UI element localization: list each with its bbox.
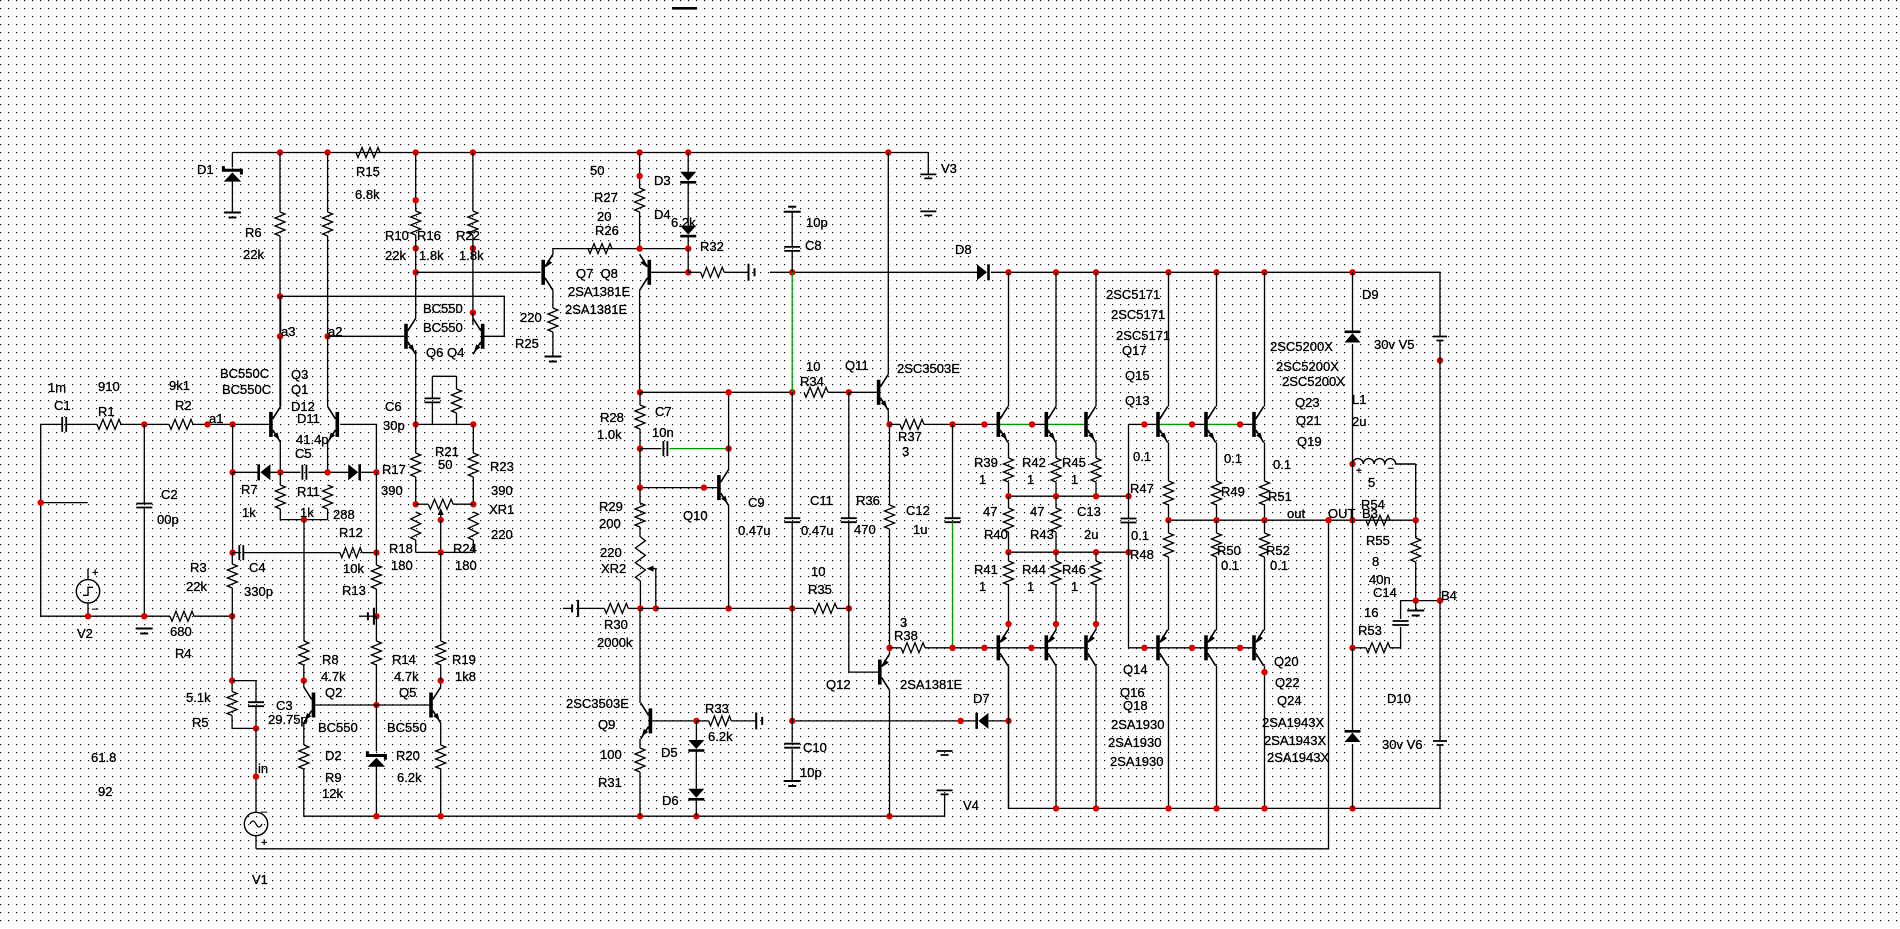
svg-text:C2: C2 (161, 487, 178, 502)
svg-text:R26: R26 (595, 223, 619, 238)
junction top rail R22 (470, 149, 476, 155)
resistor R45 1 (1091, 458, 1101, 482)
junction Q10 base seg (701, 484, 707, 490)
resistor R8 (299, 641, 309, 665)
wire Q5 collector (440, 681, 442, 687)
svg-text:XR2: XR2 (601, 561, 626, 576)
wire C12 top (952, 424, 954, 518)
wire V5 to B4 (1439, 341, 1441, 601)
junction XR1 bottom (438, 549, 444, 555)
capacitor C5 (302, 465, 306, 480)
resistor R24 (468, 512, 478, 540)
svg-text:2SA1943X: 2SA1943X (1262, 715, 1324, 730)
junction R41 emitter (1005, 621, 1011, 627)
diode D11 (348, 464, 361, 480)
wire R39 bottom (1008, 482, 1010, 496)
junction C6 right (470, 421, 476, 427)
svg-text:R6: R6 (245, 225, 262, 240)
junction top rail R27 (636, 149, 642, 155)
wire D7 row (792, 720, 977, 722)
wire NPN2 base b (1144, 423, 1156, 425)
junction railR e (1213, 805, 1219, 811)
battery V6 (1433, 741, 1447, 745)
svg-text:C7: C7 (655, 404, 672, 419)
junction R13 gnd (373, 613, 379, 619)
resistor R55 (1411, 538, 1421, 562)
wire D3 lead (687, 153, 689, 172)
wire R53 lead (1353, 647, 1367, 649)
svg-text:1: 1 (1027, 579, 1034, 594)
wire R49 bottom (1216, 505, 1218, 520)
wire D9 top lead (1352, 272, 1354, 330)
wire R7 leads (279, 472, 281, 485)
svg-text:R36: R36 (856, 493, 880, 508)
capacitor C12 (945, 518, 961, 522)
junction V5 bottom (1437, 357, 1443, 363)
wire Q23 emitter (1168, 442, 1170, 481)
wire R51 bottom (1264, 505, 1266, 520)
wire diode row 3 (308, 471, 348, 473)
wire Q22 collector (1216, 666, 1218, 809)
wire D5 top (695, 721, 697, 740)
junction C6 left (413, 421, 419, 427)
svg-text:D8: D8 (955, 242, 972, 257)
svg-text:Q22: Q22 (1275, 675, 1300, 690)
svg-text:5: 5 (1368, 475, 1375, 490)
svg-text:4.7k: 4.7k (394, 669, 419, 684)
wire Q19 collector (1264, 272, 1266, 406)
svg-text:C14: C14 (1373, 585, 1397, 600)
svg-text:R35: R35 (808, 582, 832, 597)
transistor Q11 2SC3503E (877, 374, 889, 410)
junction rail D9 (1349, 269, 1355, 275)
wire Q3 emitter down (279, 442, 281, 472)
resistor R7 (275, 485, 285, 509)
wire R3col below (231, 616, 233, 691)
capacitor C4 (239, 545, 243, 560)
wire V1 bottom (255, 836, 257, 849)
svg-text:61.8: 61.8 (91, 750, 116, 765)
wire R27 bottom (639, 212, 641, 249)
svg-text:BC550: BC550 (387, 720, 427, 735)
resistor R53 (1366, 643, 1390, 653)
svg-text:R37: R37 (898, 429, 922, 444)
junction R12 R13 (373, 549, 379, 555)
wire rail left (376, 815, 944, 817)
wire D5-D6 (695, 751, 697, 788)
diode D2 (zener) (367, 751, 385, 767)
capacitor C6 (424, 398, 440, 402)
svg-text:R52: R52 (1266, 543, 1290, 558)
junction PNP2 base c (1237, 645, 1243, 651)
wire D10 top (1352, 648, 1354, 730)
svg-text:R8: R8 (322, 652, 339, 667)
svg-text:BC550C: BC550C (220, 366, 269, 381)
wire diode row 4 (361, 471, 376, 473)
svg-text:910: 910 (98, 379, 120, 394)
wire NPN1 base wire b (1032, 423, 1045, 425)
svg-text:47: 47 (1030, 504, 1044, 519)
wire R38 right (925, 647, 984, 649)
svg-text:Q3: Q3 (291, 367, 308, 382)
wire R40 leads (1008, 496, 1010, 508)
wire top rail (232, 152, 928, 154)
wire R33 right (731, 720, 756, 722)
junction L1 left (1349, 461, 1355, 467)
svg-text:10p: 10p (800, 765, 822, 780)
svg-text:2SA1930: 2SA1930 (1108, 735, 1162, 750)
svg-text:390: 390 (491, 483, 513, 498)
junction R23 XR1 (470, 501, 476, 507)
wire Q24 collector (1264, 666, 1266, 809)
svg-text:R19: R19 (452, 652, 476, 667)
svg-text:41.4p: 41.4p (296, 432, 329, 447)
resistor R50 0.1 (1212, 533, 1222, 557)
junction C5 R11 (324, 469, 330, 475)
svg-text:C3: C3 (276, 698, 293, 713)
wire R30 lead (578, 607, 604, 609)
pot XR2 (635, 537, 645, 581)
junction NPN2 base b (1189, 421, 1195, 427)
resistor R1 (97, 419, 121, 429)
transistor Q2 BC550 (304, 687, 316, 723)
wire R19 bottom (440, 665, 442, 681)
resistor R31 (635, 748, 645, 772)
wire V4 bottom (944, 794, 946, 816)
transistor Q3 BC550C (269, 406, 281, 442)
svg-text:Q2: Q2 (325, 685, 342, 700)
wire R16 top (415, 153, 417, 212)
wire V2 plus stub (87, 569, 89, 580)
wire C13 col top (1128, 424, 1130, 496)
svg-text:C9: C9 (748, 495, 765, 510)
wire R32 end (724, 271, 748, 273)
wire XR1 right lead (453, 503, 473, 505)
wire R21 top lead (456, 376, 458, 389)
junction D7 mid (958, 718, 964, 724)
svg-text:16: 16 (1364, 605, 1378, 620)
wire R34 right (828, 391, 849, 393)
wire R37 right (924, 423, 984, 425)
ground R30 (572, 600, 578, 617)
junction R4 R3 (229, 613, 235, 619)
junction D11 R13col (373, 469, 379, 475)
svg-text:R46: R46 (1062, 562, 1086, 577)
junction C3-R5 (253, 725, 259, 731)
svg-text:D11: D11 (297, 411, 320, 426)
resistor R22 (468, 211, 478, 235)
svg-text:288: 288 (333, 507, 355, 522)
wire C13 col bottom (1128, 552, 1130, 648)
svg-text:2SA1943X: 2SA1943X (1264, 733, 1326, 748)
wire NPN1 base green a (1000, 423, 1032, 425)
wire Q14 collector (1008, 666, 1010, 809)
resistor R4 (170, 611, 194, 621)
wire R3 leads (231, 553, 233, 564)
svg-text:R13: R13 (342, 583, 366, 598)
junction D7 left (789, 718, 795, 724)
wire in column (255, 728, 257, 812)
svg-text:6.2k: 6.2k (397, 770, 422, 785)
junction PNP1 base a (981, 645, 987, 651)
resistor R36 (885, 505, 895, 529)
transistor Q18 2SA1930 (1084, 630, 1096, 666)
diode D9 (1345, 331, 1361, 343)
wire Q5 base (376, 704, 429, 706)
wire R25 bottom (552, 332, 554, 357)
junction D12 R7 (277, 469, 283, 475)
junction Q20 collector (1261, 669, 1267, 675)
wire OUT rail (1169, 519, 1416, 521)
wire D10 bottom (1352, 744, 1354, 808)
inductor L1 (1353, 459, 1416, 464)
svg-text:R38: R38 (894, 628, 918, 643)
svg-text:2SA1930: 2SA1930 (1110, 754, 1164, 769)
svg-text:2u: 2u (1352, 414, 1366, 429)
resistor R35 (813, 603, 837, 613)
wire C1-R1 (66, 423, 97, 425)
wire XR1 wiper down (440, 520, 442, 553)
junction R38 left (886, 645, 892, 651)
svg-text:0.1: 0.1 (1273, 457, 1291, 472)
wire Q2 collector (303, 681, 305, 687)
wire Q15 emitter (1055, 442, 1057, 458)
junction rail col3 (1093, 269, 1099, 275)
junction R26 Q8emitter (636, 245, 642, 251)
wire Q8 collector (639, 290, 641, 392)
wire R43 bottom (1055, 532, 1057, 552)
wire R52 bottom (1264, 557, 1266, 630)
transistor Q22 2SA1943X (1204, 630, 1216, 666)
svg-text:6.8k: 6.8k (355, 187, 380, 202)
svg-text:D3: D3 (654, 173, 671, 188)
wire PNP1 base wire (984, 647, 1084, 649)
junction R7 R11 (301, 516, 307, 522)
diode D5 (688, 740, 704, 752)
diode D3 (680, 172, 696, 184)
wire D2 bottom (375, 767, 377, 817)
battery V3 (920, 174, 936, 215)
wire Q12 emitter (889, 648, 891, 654)
junction out a (1165, 517, 1171, 523)
wire C13 col mid1 (1128, 496, 1130, 518)
resistor R25 (548, 308, 558, 332)
junction rail col1 (1005, 269, 1011, 275)
wire C2 col bottom (143, 508, 145, 617)
svg-text:10k: 10k (343, 561, 364, 576)
resistor R38 (901, 643, 925, 653)
svg-text:–: – (92, 603, 99, 615)
svg-text:R17: R17 (382, 462, 406, 477)
resistor R12 (340, 548, 362, 558)
svg-text:2SA1381E: 2SA1381E (565, 302, 627, 317)
wire NPN1 base green b (1048, 423, 1084, 425)
junction R22 Q4 col (470, 309, 476, 315)
junction R47 emitter (1093, 621, 1099, 627)
junction Q9 D5 (693, 718, 699, 724)
wire R48 bottom (1168, 557, 1170, 630)
svg-text:1k: 1k (300, 505, 314, 520)
wire V3 lead (927, 153, 929, 175)
wire C2 col top (143, 424, 145, 503)
junction row496 a (1005, 493, 1011, 499)
junction R30 XR2 (637, 605, 643, 611)
ground at R13 (368, 608, 374, 625)
svg-text:D6: D6 (662, 793, 679, 808)
svg-text:0.47u: 0.47u (738, 523, 771, 538)
transistor Q19 2SC5200X (1252, 406, 1264, 442)
wire R22 bottom (472, 235, 474, 325)
resistor R17 (411, 453, 421, 477)
junction a1-D12 (229, 469, 235, 475)
svg-text:3: 3 (902, 444, 909, 459)
wire Q3 collector up (280, 296, 282, 406)
wire D8 to rail corner (991, 272, 1440, 336)
wire Q10 collector (728, 392, 730, 469)
wire Q8 base (651, 271, 688, 273)
wire a1col to C4row (232, 472, 234, 552)
wire Q17 collector (1008, 272, 1010, 406)
svg-text:2SC5200X: 2SC5200X (1270, 339, 1333, 354)
junction row496 c (1093, 493, 1099, 499)
capacitor C14 (1393, 621, 1409, 625)
svg-text:220: 220 (491, 527, 513, 542)
svg-text:2u: 2u (1084, 527, 1098, 542)
wire Q13 emitter (1095, 442, 1097, 458)
wire Q17 emitter (1008, 442, 1010, 458)
wire B4 row (1401, 600, 1440, 602)
wire Q6 collector (415, 296, 417, 318)
resistor R43 47 (1051, 508, 1061, 532)
svg-text:R2: R2 (175, 398, 192, 413)
svg-text:BC550: BC550 (318, 720, 358, 735)
resistor R20 (436, 745, 446, 769)
wire R42 bottom (1055, 482, 1057, 496)
svg-text:Q9: Q9 (598, 717, 615, 732)
svg-text:Q5: Q5 (399, 685, 416, 700)
resistor R9 (299, 745, 309, 769)
wire Q1 emitter down (327, 442, 329, 472)
svg-text:D9: D9 (1362, 287, 1379, 302)
junction railR c (1093, 805, 1099, 811)
svg-text:2SC5200X: 2SC5200X (1276, 359, 1339, 374)
pot XR1 (428, 499, 453, 509)
svg-text:V2: V2 (77, 626, 93, 641)
wire C4 row 1 (233, 552, 240, 554)
svg-text:220: 220 (520, 310, 542, 325)
svg-text:R50: R50 (1217, 543, 1241, 558)
wire a2 col (327, 336, 329, 406)
wire C13 col mid2 (1128, 523, 1130, 553)
wire R28 top (639, 392, 641, 405)
svg-text:4.7k: 4.7k (321, 669, 346, 684)
resistor R16 (411, 211, 421, 235)
svg-text:10n: 10n (652, 425, 674, 440)
svg-text:Q15: Q15 (1125, 368, 1150, 383)
wire D1 lead top (231, 153, 233, 168)
wire C9 bottom (791, 522, 793, 608)
capacitor C7 (663, 441, 667, 456)
junction C3 split (229, 677, 235, 683)
wire R30row a (640, 607, 655, 609)
svg-text:Q17: Q17 (1122, 343, 1147, 358)
resistor R42 1 (1051, 458, 1061, 482)
resistor R41 1 (1004, 561, 1014, 585)
junction top rail D3 (685, 149, 691, 155)
svg-text:47: 47 (983, 504, 997, 519)
junction R54 right (1413, 517, 1419, 523)
wire R7 bottom (280, 509, 327, 520)
wire R23 top (472, 424, 474, 453)
svg-text:Q6 Q4: Q6 Q4 (426, 345, 464, 360)
transistor Q21 2SC5200X (1204, 406, 1216, 442)
svg-text:R10: R10 (385, 228, 409, 243)
svg-text:C12: C12 (906, 503, 930, 518)
capacitor C11 (841, 518, 857, 522)
svg-text:6.2k: 6.2k (708, 729, 733, 744)
junction a3 wire (277, 293, 283, 299)
wire R27 top (639, 153, 641, 189)
wire D9-L1-R54 col (1352, 464, 1354, 648)
junction out b (1213, 517, 1219, 523)
resistor R26 (588, 244, 612, 254)
svg-text:2SC3503E: 2SC3503E (897, 361, 960, 376)
svg-text:BC550: BC550 (423, 301, 463, 316)
resistor R19 (436, 641, 446, 665)
resistor R15 (356, 148, 380, 158)
svg-text:1.8k: 1.8k (419, 248, 444, 263)
svg-text:+: + (261, 837, 267, 849)
svg-text:D4: D4 (654, 207, 671, 222)
wire R14 bottom (375, 665, 377, 705)
wire B4 gnd stub (1415, 601, 1417, 611)
svg-text:Q18: Q18 (1123, 698, 1148, 713)
junction R27 pin (636, 173, 642, 179)
wire Q9 emitter (639, 739, 641, 748)
junction row608 C9 (789, 605, 795, 611)
wire R8 bottom (303, 665, 305, 681)
svg-text:R12: R12 (339, 525, 363, 540)
svg-text:R14: R14 (392, 652, 416, 667)
wire R29 bottom (639, 527, 641, 537)
svg-text:R43: R43 (1030, 527, 1054, 542)
resistor R6 (275, 212, 285, 236)
wire rail right (1009, 666, 1441, 809)
wire Q6 emitter col (415, 350, 417, 424)
wire C11 bottom (848, 522, 850, 608)
wire XR1 left lead (416, 503, 429, 505)
wire R47 bottom (1095, 585, 1097, 630)
svg-text:9k1: 9k1 (169, 378, 190, 393)
wire R28 bottom (639, 429, 641, 449)
transistor Q10 2SC3503E (717, 470, 729, 506)
wire Q9 base (652, 720, 696, 722)
svg-text:R15: R15 (356, 164, 380, 179)
junction PNP2 base a (1141, 645, 1147, 651)
wire Q9 collector (639, 608, 641, 703)
transistor Q24 2SA1943X (1252, 630, 1264, 666)
svg-text:2SC5200X: 2SC5200X (1282, 374, 1345, 389)
svg-text:a3: a3 (281, 324, 295, 339)
resistor R21 (452, 389, 462, 413)
wire C6 bridge (432, 375, 456, 377)
wire Q2 base (315, 704, 376, 706)
wire R38 lead (890, 647, 902, 649)
wire R22 top (472, 153, 474, 212)
junction R19 Q5 (438, 677, 444, 683)
wire R37 lead (890, 423, 901, 425)
junction railR d (1165, 805, 1171, 811)
